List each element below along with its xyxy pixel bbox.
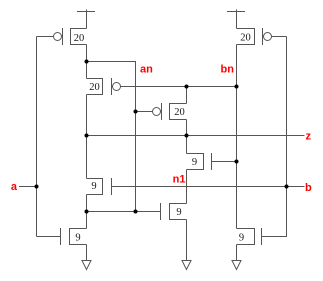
- svg-text:9: 9: [91, 181, 96, 192]
- svg-text:20: 20: [89, 82, 100, 93]
- svg-text:20: 20: [174, 107, 185, 118]
- svg-text:bn: bn: [221, 64, 235, 76]
- svg-text:9: 9: [176, 207, 181, 218]
- svg-text:20: 20: [74, 33, 85, 44]
- svg-text:9: 9: [239, 233, 244, 244]
- svg-text:n1: n1: [173, 174, 186, 186]
- svg-text:b: b: [305, 182, 312, 194]
- svg-text:9: 9: [192, 157, 197, 168]
- svg-text:z: z: [306, 131, 312, 143]
- svg-text:an: an: [140, 64, 153, 76]
- svg-text:a: a: [11, 181, 18, 193]
- svg-text:20: 20: [240, 33, 251, 44]
- svg-text:9: 9: [75, 233, 80, 244]
